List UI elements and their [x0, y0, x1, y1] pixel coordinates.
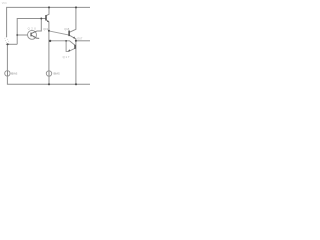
svg-text:Q19: Q19: [43, 27, 49, 31]
svg-text:Q20: Q20: [28, 27, 37, 31]
svg-text:IBIAS: IBIAS: [53, 73, 60, 76]
svg-text:Q18: Q18: [64, 27, 70, 31]
svg-text:VCC: VCC: [2, 2, 7, 5]
svg-text:IBIAS: IBIAS: [11, 73, 18, 76]
svg-text:Q17: Q17: [63, 55, 70, 59]
svg-text:OUT: OUT: [77, 38, 83, 41]
